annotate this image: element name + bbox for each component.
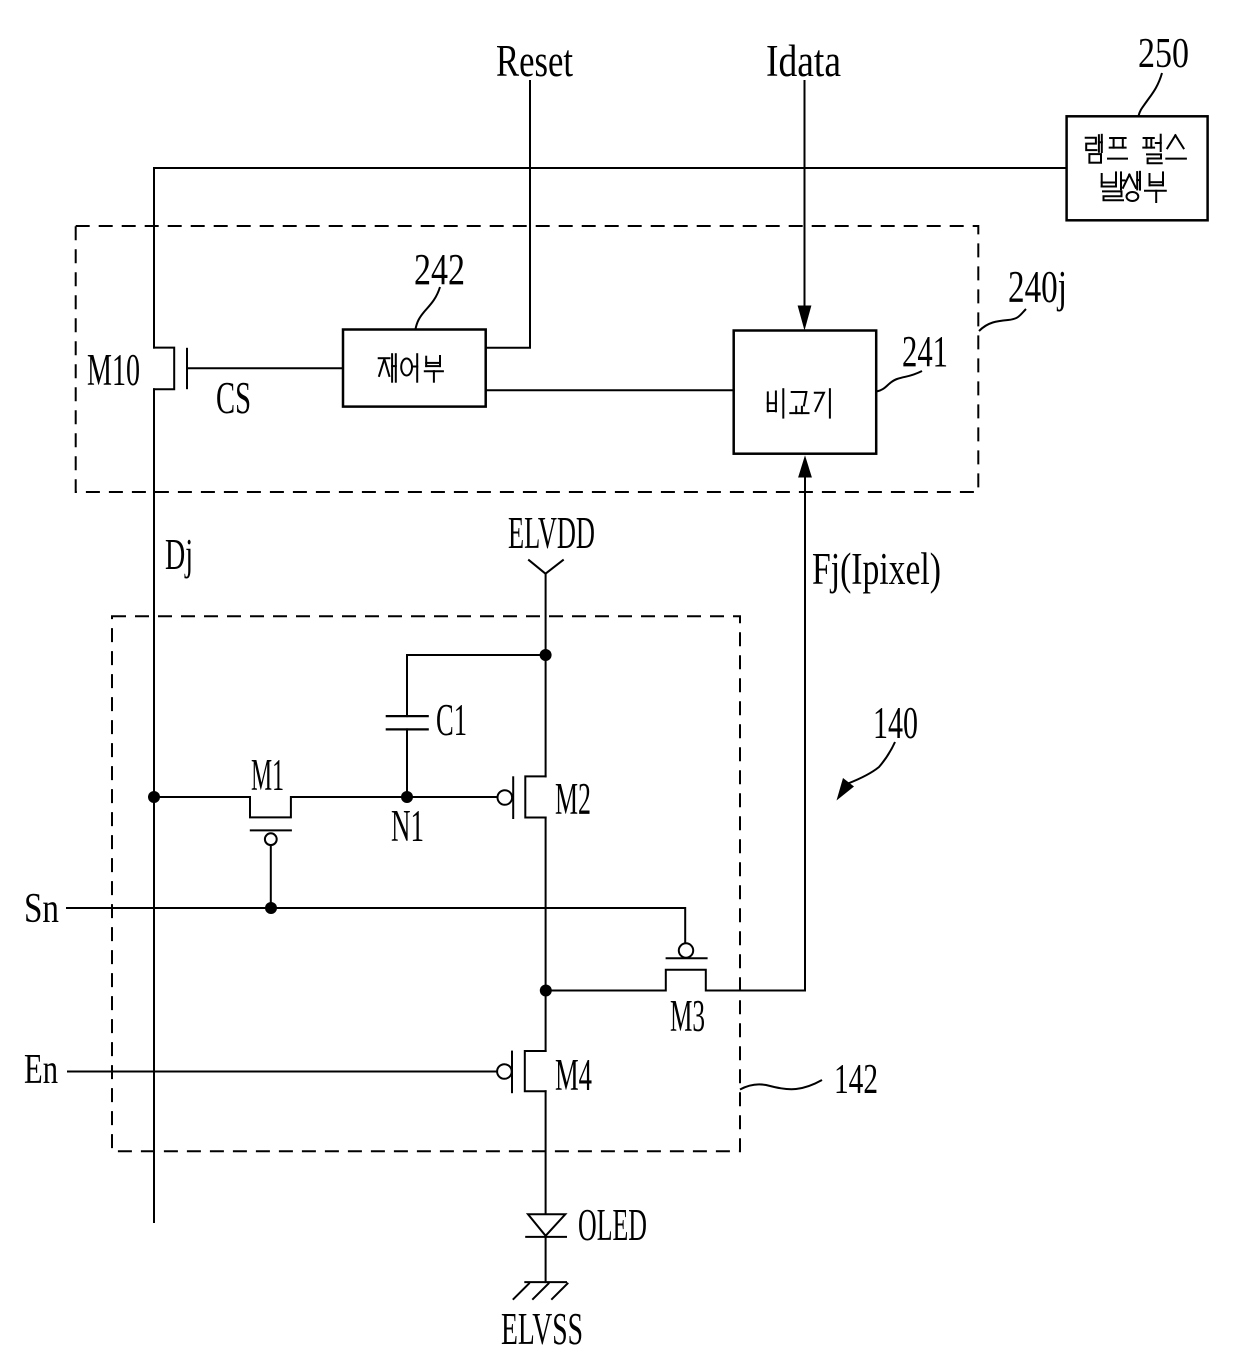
- svg-text:ELVSS: ELVSS: [501, 1304, 583, 1354]
- svg-text:M10: M10: [87, 345, 140, 395]
- svg-text:M1: M1: [251, 750, 284, 800]
- svg-text:250: 250: [1138, 31, 1189, 77]
- svg-text:En: En: [24, 1047, 58, 1093]
- svg-text:OLED: OLED: [578, 1200, 647, 1250]
- svg-text:140: 140: [873, 698, 918, 748]
- svg-text:142: 142: [834, 1057, 878, 1103]
- svg-text:241: 241: [902, 327, 948, 376]
- svg-text:CS: CS: [216, 373, 251, 423]
- svg-text:ELVDD: ELVDD: [508, 508, 595, 558]
- svg-text:Idata: Idata: [766, 36, 841, 86]
- svg-text:242: 242: [414, 245, 465, 294]
- svg-text:Fj(Ipixel): Fj(Ipixel): [812, 544, 941, 594]
- svg-text:Dj: Dj: [165, 530, 193, 579]
- svg-text:M4: M4: [555, 1050, 592, 1100]
- svg-text:M2: M2: [555, 774, 591, 824]
- svg-text:Sn: Sn: [24, 886, 59, 932]
- svg-text:M3: M3: [670, 991, 705, 1041]
- svg-text:Reset: Reset: [496, 36, 573, 86]
- svg-text:C1: C1: [436, 695, 467, 745]
- svg-text:240j: 240j: [1008, 262, 1067, 312]
- svg-text:N1: N1: [391, 801, 424, 851]
